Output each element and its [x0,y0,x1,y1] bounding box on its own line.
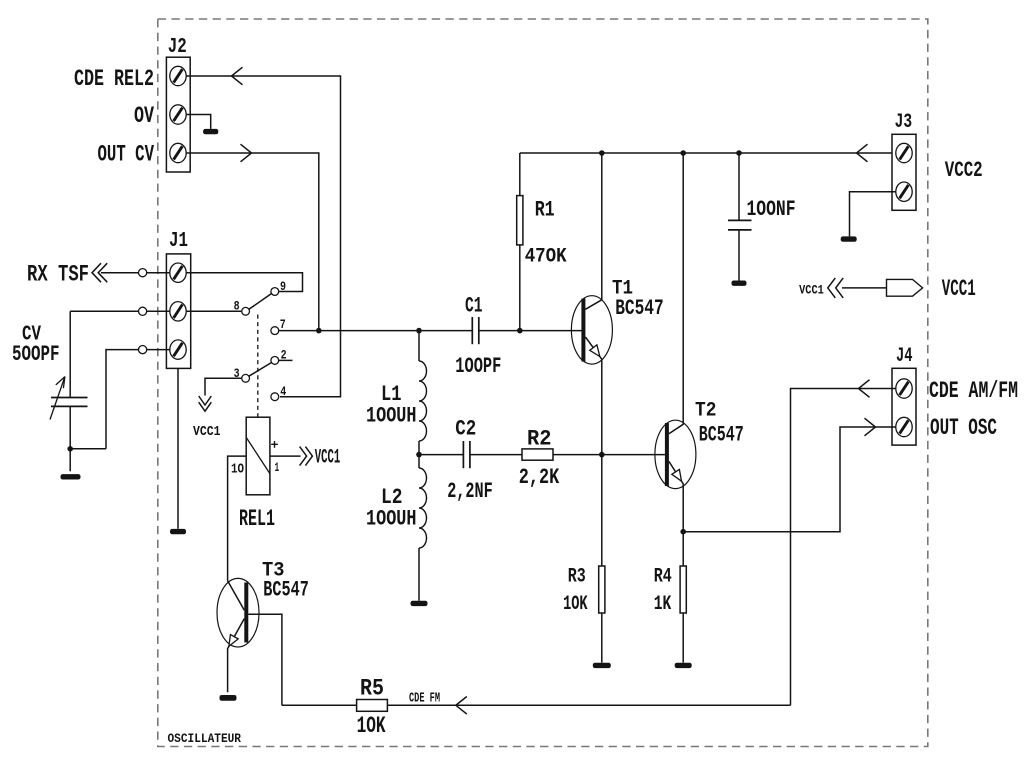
wire J1 pin 3 to ground [177,368,179,528]
svg-text:J1: J1 [169,229,188,253]
ground under R4 [675,663,692,668]
svg-text:VCC1: VCC1 [193,424,221,440]
wire CV bottom cross to J1 pin 3 [106,350,139,449]
arrow RX TSF [92,263,107,282]
svg-text:VCC1: VCC1 [799,283,824,298]
label OUT OSC [930,415,997,441]
svg-text:CDE FM: CDE FM [409,691,440,707]
node R1 junction [517,328,523,334]
inductor L1 label [381,382,402,407]
svg-text:R5: R5 [360,675,384,701]
transistor T2 collector [669,153,683,434]
resistor R5 label [360,675,384,701]
wire C2 to R2 [470,454,522,456]
wire CDE AM/FM to bottom line [791,380,896,706]
contact 9 [271,279,286,295]
connector J4 pin 1 [896,379,912,398]
capacitor C2 label [455,416,476,441]
transistor T2 emitter arrow [672,470,682,482]
label VCC2 [945,158,983,183]
transistor T1 body [571,296,612,364]
label RX TSF [27,262,89,288]
svg-text:5OOPF: 5OOPF [12,342,60,367]
connector J2 pin 3 [170,143,186,162]
arrow relay VCC1 [300,447,313,466]
svg-text:1: 1 [275,461,280,475]
wire CV bottom to ground [69,406,71,471]
connector J2 body [166,57,190,172]
wire RX TSF to J1 pin 1 [101,272,139,274]
VCC1 pennant [887,279,923,296]
wire R1 top [519,153,521,196]
wire stub to J1 pin 1 [147,272,170,274]
wire L1-L2 link [418,441,420,468]
label OV [134,103,154,129]
resistor R4 value 1K [654,593,672,616]
connector J1 label [169,229,188,253]
wire OUT CV down to node 7 line [186,144,318,330]
wire R2 to T2 base [553,454,665,456]
relay pin 10 label [231,462,244,477]
svg-text:OSCILLATEUR: OSCILLATEUR [168,731,242,746]
wire 100NF bottom [738,230,740,281]
ground under T3 [220,695,237,701]
wire T3 base to R5 [282,704,357,706]
oscillator module dashed frame [158,19,928,747]
ground under L2 [411,601,428,606]
resistor R2 [522,449,553,460]
svg-text:T2: T2 [695,399,717,422]
contact 8 [234,298,250,315]
resistor R1 value 470K [525,245,567,268]
label relay VCC1 [315,446,341,469]
contact 3 [234,366,250,382]
transistor T3 body [217,578,259,647]
label CV [22,322,41,346]
stub at contact 2 [279,359,293,361]
wire VCC2 rail [520,152,897,154]
node T1 emitter junction [599,452,605,458]
wire junction to J1 pin3 branch [70,448,106,450]
wire CV top to J1 pin 2 [70,310,138,312]
capacitor 100NF plates [728,220,752,230]
switch blade 8-9 [249,293,272,309]
svg-text:OV: OV [134,103,154,129]
svg-text:1OK: 1OK [563,593,588,616]
node T2 emitter junction [680,529,686,535]
transistor T2 base bar [665,423,669,486]
connector J3 pin 1 [896,143,912,162]
wire T2 emitter to R4 [682,532,684,566]
wire stub to J1 pin 3 [147,349,170,351]
resistor R2 value 2,2K [519,465,560,490]
svg-text:R2: R2 [527,426,552,451]
ground under R3 [593,663,611,668]
connector J3 body [892,134,916,210]
svg-text:1OONF: 1OONF [747,197,796,222]
node T1 collector junction [599,150,605,156]
label OUT CV [98,142,155,168]
transistor T3 label [262,559,285,582]
resistor R3 value 10K [563,593,588,616]
svg-text:1OOPF: 1OOPF [455,354,501,379]
wire 100NF top [738,153,740,220]
variable capacitor arrow [50,377,65,420]
variable capacitor CV plates [51,398,88,407]
inductor L2 label [381,485,403,510]
svg-text:CDE AM/FM: CDE AM/FM [929,378,1018,404]
transistor T3 base bar [244,583,248,643]
wire J1 pin 2 to contact 8 [186,310,241,312]
svg-text:J4: J4 [896,345,913,368]
svg-text:R3: R3 [568,565,586,588]
arrow VCC1 flag [828,278,843,298]
wire J3 pin 2 to ground [850,192,896,237]
svg-text:4: 4 [280,384,286,399]
label CDE REL2 [74,66,154,92]
label VCC1 small [193,424,221,440]
resistor R3 [599,566,605,613]
transistor T3 value BC547 [263,578,309,603]
inductor L2 [419,468,427,548]
arrow VCC1 down [199,396,212,411]
ground under 100NF [732,281,747,286]
node 100NF junction [736,150,742,156]
transistor T1 emitter arrow [590,345,600,357]
resistor R1 [517,196,523,245]
svg-text:47OK: 47OK [525,245,567,268]
transistor T3 emitter arrow [229,635,238,647]
svg-text:REL1: REL1 [239,506,275,532]
svg-text:1O: 1O [231,462,244,477]
connector J4 body [892,368,916,445]
label CDE FM [409,691,440,707]
transistor T2 value BC547 [699,422,744,447]
connector J3 pin 2 [896,182,912,201]
inductor L2 value [366,506,417,531]
transistor T1 emitter [585,337,601,455]
svg-text:1OOUH: 1OOUH [366,506,417,531]
resistor R3 label [568,565,586,588]
contact 4 [271,384,286,401]
svg-text:J3: J3 [895,111,913,134]
wire VCC1 flag [842,287,887,289]
label VCC1 big [942,276,976,302]
relay pin 1 label [275,461,280,475]
svg-text:BC547: BC547 [263,578,309,603]
capacitor C1 label [465,294,483,319]
relay REL1 body [246,417,270,495]
ground at J3 [841,236,857,241]
transistor T3 base wire [248,614,282,705]
node OUT CV junction [316,328,322,334]
svg-text:C1: C1 [465,294,483,319]
connector J2 pin 2 [170,105,186,124]
capacitor C1 value 100PF [455,354,501,379]
resistor R2 label [527,426,552,451]
wire L2 bottom [418,548,420,601]
svg-text:9: 9 [280,279,286,294]
ground under J1 [170,529,186,534]
wire R3 to ground [601,613,603,663]
transistor T1 collector [585,153,601,309]
wire tank to C2 [419,454,463,456]
transistor T2 emitter [669,461,683,531]
svg-text:VCC1: VCC1 [942,276,976,302]
connector J2 pin 1 [170,66,186,85]
stub circle J1 pin 1 [139,269,147,277]
inductor L1 value [366,403,417,428]
svg-text:C2: C2 [455,416,476,441]
wire node7 line right of C1 [479,330,582,332]
svg-text:1K: 1K [654,593,672,616]
frame title OSCILLATEUR [168,731,242,746]
wire J1 pin 1 to contact 9 [186,273,302,292]
label VCC1 small flag [799,283,824,298]
connector J4 pin 2 [896,417,912,436]
resistor R5 [357,700,388,712]
connector J2 label [168,35,187,59]
transistor T2 body [655,420,696,488]
label CDE AM/FM [929,378,1018,404]
relay REL1 diagonal [246,437,270,473]
svg-text:OUT CV: OUT CV [98,142,155,168]
connector J1 pin 3 [170,340,186,359]
transistor T2 label [695,399,717,422]
wire R1 bottom [519,245,521,331]
switch blade 3-2 [249,362,272,376]
svg-text:8: 8 [234,298,240,313]
wire OV to ground [186,115,210,129]
node T2 collector junction [680,150,686,156]
svg-text:J2: J2 [168,35,187,59]
node tank junction [416,452,422,458]
transistor T3 emitter [228,619,245,693]
connector J1 pin 2 [170,302,186,321]
wire L1 top [418,331,420,361]
wire J1 pin2 line down to CV [69,311,71,397]
capacitor C1 plates [472,317,479,344]
label 500PF [12,342,60,367]
wire R5 to CDE AM/FM line [387,704,790,706]
svg-text:R1: R1 [535,197,555,222]
svg-text:BC547: BC547 [699,422,744,447]
wire OUT OSC to T2 emitter [683,418,896,532]
svg-text:BC547: BC547 [615,296,664,321]
svg-text:1OOUH: 1OOUH [366,403,417,428]
arrow at J3 VCC2 [857,144,868,162]
svg-text:R4: R4 [654,565,672,588]
arrow CDE FM [456,697,467,715]
stub circle J1 pin 3 [139,346,147,354]
node L1 junction [416,328,422,334]
connector J3 label [895,111,913,134]
wire node7 line left [279,330,472,332]
svg-text:OUT OSC: OUT OSC [930,415,997,441]
wire CDE REL2 to switch contact 4 [186,67,340,397]
capacitor 100NF value [747,197,796,222]
svg-text:VCC1: VCC1 [315,446,341,469]
wire T1 emitter to R3 [601,455,603,566]
svg-text:VCC2: VCC2 [945,158,983,183]
wire stub to J1 pin 2 [147,310,170,312]
contact 2 [271,347,287,364]
wire relay pin 10 [228,456,247,581]
svg-text:2,2NF: 2,2NF [447,479,493,504]
stub circle J1 pin 2 [139,307,147,315]
resistor R4 label [654,565,672,588]
resistor R5 value 10K [357,713,386,739]
capacitor C2 plates [463,441,470,468]
inductor L1 [419,361,427,441]
relay plus sign [271,441,278,448]
resistor R4 [680,566,686,613]
svg-text:2,2K: 2,2K [519,465,560,490]
transistor T3 collector [228,581,245,611]
wire contact 3 to VCC1 arrow [205,378,242,395]
wire R4 to ground [682,613,684,663]
connector J1 pin 1 [170,263,186,282]
node CV bottom junction [67,446,73,452]
ground under CV [61,474,81,479]
resistor R1 label [535,197,555,222]
connector J1 body [166,254,190,369]
transistor T1 label [612,277,633,300]
mechanical link dashed [257,315,259,418]
transistor T1 base bar [581,299,585,362]
capacitor C2 value 2,2NF [447,479,493,504]
svg-text:RX TSF: RX TSF [27,262,89,288]
relay REL1 label [239,506,275,532]
ground at J2 OV [203,129,218,134]
wire relay pin 1 to VCC1 [270,455,301,457]
svg-text:1OK: 1OK [357,713,386,739]
contact 7 [271,317,286,334]
connector J4 label [896,345,913,368]
transistor T1 value BC547 [615,296,664,321]
svg-text:CDE REL2: CDE REL2 [74,66,154,92]
